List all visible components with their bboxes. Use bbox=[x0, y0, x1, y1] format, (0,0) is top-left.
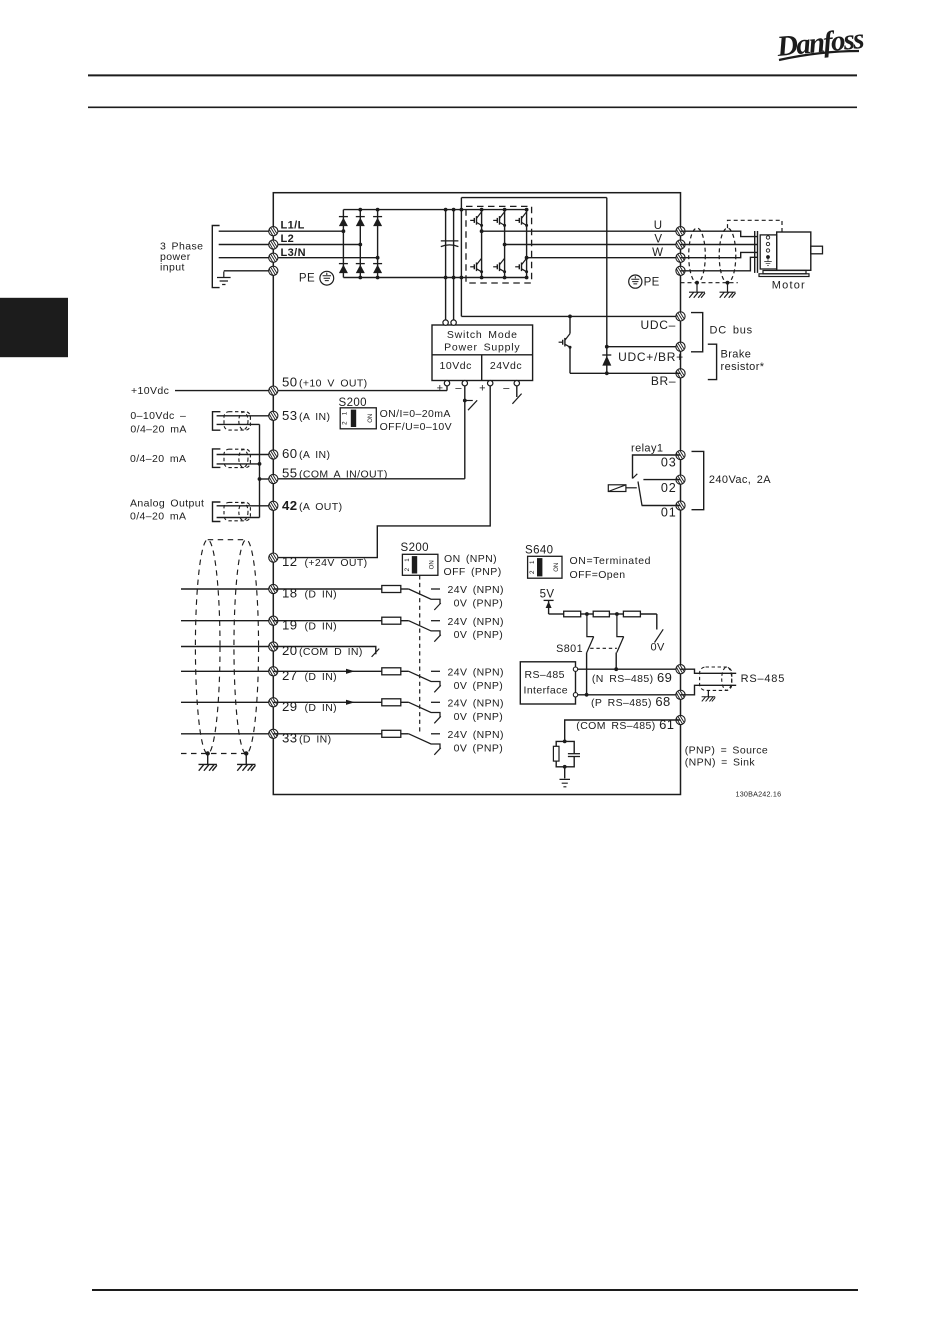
svg-text:ON/I=0–20mA: ON/I=0–20mA bbox=[380, 408, 451, 420]
svg-text:1: 1 bbox=[404, 558, 411, 562]
svg-text:Interface: Interface bbox=[524, 684, 568, 696]
svg-text:ON: ON bbox=[430, 560, 436, 569]
svg-text:24V (NPN): 24V (NPN) bbox=[448, 729, 504, 741]
svg-text:24V (NPN): 24V (NPN) bbox=[448, 698, 504, 710]
svg-text:2: 2 bbox=[529, 570, 536, 574]
svg-text:L2: L2 bbox=[281, 233, 295, 245]
svg-text:1: 1 bbox=[342, 411, 349, 415]
svg-text:42(A OUT): 42(A OUT) bbox=[282, 498, 342, 513]
svg-text:(NPN) = Sink: (NPN) = Sink bbox=[685, 757, 756, 769]
svg-text:12 (+24V OUT): 12 (+24V OUT) bbox=[282, 554, 368, 569]
svg-text:19 (D IN): 19 (D IN) bbox=[282, 618, 337, 633]
svg-text:24V (NPN): 24V (NPN) bbox=[448, 616, 504, 628]
svg-text:27 (D IN): 27 (D IN) bbox=[282, 668, 337, 683]
svg-text:50(+10 V OUT): 50(+10 V OUT) bbox=[282, 375, 368, 390]
svg-text:0V (PNP): 0V (PNP) bbox=[454, 742, 504, 754]
svg-text:2: 2 bbox=[342, 421, 349, 425]
svg-text:53(A IN): 53(A IN) bbox=[282, 408, 330, 423]
svg-text:–: – bbox=[455, 383, 462, 395]
svg-text:S200: S200 bbox=[401, 542, 429, 554]
svg-text:L3/N: L3/N bbox=[281, 247, 306, 259]
svg-text:0/4–20 mA: 0/4–20 mA bbox=[130, 424, 186, 436]
svg-text:5V: 5V bbox=[540, 589, 555, 601]
svg-text:S801: S801 bbox=[556, 643, 583, 655]
svg-text:0V (PNP): 0V (PNP) bbox=[454, 711, 504, 723]
svg-text:02: 02 bbox=[661, 481, 677, 495]
svg-text:UDC+/BR+: UDC+/BR+ bbox=[618, 350, 684, 364]
svg-text:0–10Vdc –: 0–10Vdc – bbox=[130, 410, 186, 422]
svg-text:V: V bbox=[654, 233, 662, 245]
svg-text:0/4–20 mA: 0/4–20 mA bbox=[130, 511, 186, 523]
svg-text:+10Vdc: +10Vdc bbox=[131, 385, 169, 397]
svg-text:01: 01 bbox=[661, 505, 677, 519]
svg-text:1: 1 bbox=[529, 560, 536, 564]
svg-text:input: input bbox=[160, 261, 185, 273]
svg-text:0/4–20 mA: 0/4–20 mA bbox=[130, 453, 186, 465]
svg-text:ON (NPN): ON (NPN) bbox=[444, 553, 497, 565]
svg-text:Power Supply: Power Supply bbox=[444, 341, 520, 353]
svg-text:18 (D IN): 18 (D IN) bbox=[282, 586, 337, 601]
svg-text:S640: S640 bbox=[525, 544, 553, 556]
svg-text:resistor*: resistor* bbox=[721, 361, 765, 373]
svg-text:PE: PE bbox=[299, 273, 315, 285]
svg-text:24Vdc: 24Vdc bbox=[490, 360, 522, 372]
svg-text:60(A IN): 60(A IN) bbox=[282, 446, 330, 461]
svg-text:(PNP) = Source: (PNP) = Source bbox=[685, 744, 768, 756]
svg-text:0V (PNP): 0V (PNP) bbox=[454, 680, 504, 692]
svg-text:W: W bbox=[652, 247, 663, 259]
svg-text:+: + bbox=[479, 383, 486, 395]
svg-text:240Vac, 2A: 240Vac, 2A bbox=[709, 474, 771, 486]
svg-text:+: + bbox=[437, 383, 444, 395]
svg-text:(COM RS–485)61: (COM RS–485)61 bbox=[576, 717, 674, 732]
svg-text:Analog Output: Analog Output bbox=[130, 498, 204, 510]
svg-text:0V (PNP): 0V (PNP) bbox=[454, 598, 504, 610]
svg-text:L1/L: L1/L bbox=[281, 219, 305, 231]
svg-text:03: 03 bbox=[661, 455, 677, 469]
svg-text:OFF (PNP): OFF (PNP) bbox=[444, 566, 502, 578]
svg-text:(N RS–485)69: (N RS–485)69 bbox=[592, 670, 672, 685]
svg-text:–: – bbox=[503, 383, 510, 395]
svg-text:relay1: relay1 bbox=[631, 442, 663, 454]
svg-text:ON: ON bbox=[368, 414, 374, 423]
svg-text:DC bus: DC bus bbox=[710, 325, 753, 337]
svg-text:PE: PE bbox=[644, 277, 660, 289]
svg-text:(P RS–485)68: (P RS–485)68 bbox=[591, 694, 671, 709]
svg-text:130BA242.16: 130BA242.16 bbox=[736, 790, 782, 799]
svg-text:ON=Terminated: ON=Terminated bbox=[570, 555, 652, 567]
svg-text:Switch Mode: Switch Mode bbox=[447, 329, 518, 341]
svg-text:10Vdc: 10Vdc bbox=[440, 360, 472, 372]
svg-text:24V (NPN): 24V (NPN) bbox=[448, 667, 504, 679]
svg-text:ON: ON bbox=[554, 563, 560, 572]
svg-text:Motor: Motor bbox=[772, 279, 806, 291]
svg-text:29 (D IN): 29 (D IN) bbox=[282, 699, 337, 714]
svg-text:RS–485: RS–485 bbox=[741, 673, 786, 685]
svg-text:33(D IN): 33(D IN) bbox=[282, 731, 332, 746]
svg-text:0V (PNP): 0V (PNP) bbox=[454, 629, 504, 641]
svg-text:24V (NPN): 24V (NPN) bbox=[448, 584, 504, 596]
svg-text:BR–: BR– bbox=[651, 374, 676, 388]
svg-text:OFF=Open: OFF=Open bbox=[570, 569, 626, 581]
svg-text:20(COM D IN): 20(COM D IN) bbox=[282, 643, 363, 658]
svg-text:RS–485: RS–485 bbox=[525, 669, 565, 681]
svg-text:S200: S200 bbox=[339, 397, 367, 409]
svg-text:U: U bbox=[654, 220, 663, 232]
svg-text:Brake: Brake bbox=[721, 349, 752, 361]
svg-text:UDC–: UDC– bbox=[641, 318, 676, 332]
svg-text:0V: 0V bbox=[651, 641, 666, 653]
svg-text:2: 2 bbox=[404, 567, 411, 571]
svg-text:OFF/U=0–10V: OFF/U=0–10V bbox=[380, 421, 452, 433]
